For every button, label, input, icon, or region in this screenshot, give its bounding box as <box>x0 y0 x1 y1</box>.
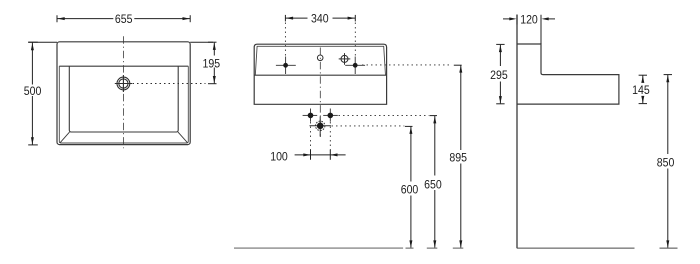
svg-text:895: 895 <box>449 152 467 165</box>
front view: centerline <box>319 48 321 138</box>
dimension 120 <box>503 15 555 44</box>
front view: apron bottom line <box>254 74 386 76</box>
dimension 145 <box>639 75 647 103</box>
side view: wall line <box>516 15 518 249</box>
plan view: floor slant left <box>60 132 70 143</box>
plan view: centerline <box>122 36 124 148</box>
dimension 195 <box>190 42 216 83</box>
dimension 100 <box>295 150 346 160</box>
dimension 100 extension dotted lines <box>311 122 331 150</box>
svg-text:340: 340 <box>311 13 329 26</box>
floor line (dashed, front view) <box>234 247 463 249</box>
reference dotted line to 895 <box>362 64 451 66</box>
reference dotted line to 600 <box>332 125 405 127</box>
svg-text:600: 600 <box>401 184 419 197</box>
side view: basin profile <box>517 44 619 104</box>
front view: rim inner line <box>255 46 385 75</box>
front view: fixing hole left <box>276 57 296 75</box>
dimension 500 <box>28 42 57 145</box>
svg-text:650: 650 <box>424 179 442 192</box>
plan view: basin outer outline <box>57 42 190 145</box>
front view: drain fixing dot right <box>323 109 338 122</box>
dimension 340 extension lines <box>285 23 355 59</box>
svg-text:655: 655 <box>115 13 133 26</box>
svg-text:850: 850 <box>657 157 675 170</box>
front view: faucet hole mark <box>317 55 323 61</box>
svg-text:500: 500 <box>24 85 42 98</box>
svg-text:120: 120 <box>520 14 538 27</box>
dimension 340 <box>285 15 355 22</box>
plan view: floor slant right <box>178 132 188 143</box>
svg-text:100: 100 <box>270 151 288 164</box>
front view: fixing hole right <box>345 57 365 75</box>
plan view: basin wall inner offset <box>59 66 188 143</box>
side view: floor line <box>517 247 678 249</box>
dimension 650 <box>429 116 437 248</box>
plan view: rim line <box>59 65 188 67</box>
front view: drain outlet <box>310 117 331 137</box>
plan view: basin opening <box>69 66 178 132</box>
dimension 655 <box>57 15 190 22</box>
front view: drain fixing dot left <box>303 109 318 122</box>
svg-text:195: 195 <box>202 58 220 71</box>
dimension 600 <box>405 126 413 247</box>
front view: basin outer outline <box>254 44 386 104</box>
reference dotted line to 650 <box>339 114 429 116</box>
dimension 295 <box>496 44 504 103</box>
plan view: faucet dotted reference line <box>133 83 206 85</box>
dimension 895 <box>454 65 462 247</box>
front view: overflow hole <box>339 53 351 65</box>
svg-text:295: 295 <box>490 69 508 82</box>
dimension 850 <box>664 75 672 248</box>
plan view: faucet hole <box>115 75 132 92</box>
svg-text:145: 145 <box>632 84 650 97</box>
